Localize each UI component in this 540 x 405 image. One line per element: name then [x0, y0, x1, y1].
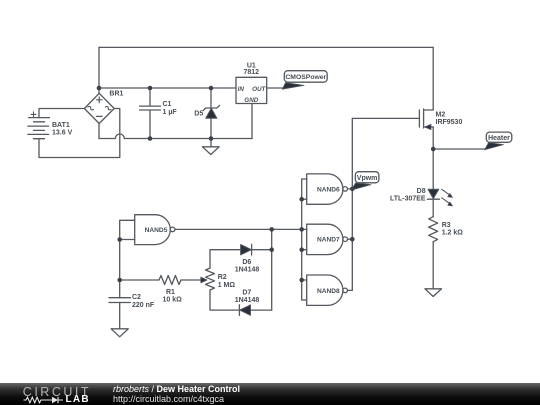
wire NAND5 output: [175, 228, 302, 230]
svg-text:Heater: Heater: [488, 135, 510, 142]
svg-text:1 MΩ: 1 MΩ: [218, 282, 236, 289]
logo CIRCUIT LAB: [23, 385, 91, 399]
wire heater branch: [433, 148, 485, 150]
svg-text:C1: C1: [163, 101, 172, 108]
footer title text: [113, 384, 240, 394]
flag Vpwm: [352, 172, 379, 190]
nand gate NAND8: [307, 275, 348, 305]
wire NAND8 input stubs: [302, 280, 307, 300]
wire NAND7 input stubs: [302, 229, 307, 249]
svg-text:BAT1: BAT1: [52, 122, 70, 129]
nand gate NAND6: [307, 174, 348, 204]
svg-text:1 µF: 1 µF: [163, 109, 178, 116]
svg-text:LTL-307EE: LTL-307EE: [390, 196, 426, 203]
svg-text:GND: GND: [244, 97, 258, 104]
svg-text:R2: R2: [218, 274, 227, 281]
wire U1 OUT to flag: [267, 87, 283, 89]
diode D6: [241, 244, 252, 255]
svg-text:1N4148: 1N4148: [235, 297, 260, 304]
led D8: [427, 189, 452, 206]
wire NAND8 output stub: [348, 289, 353, 291]
zener diode D5: [203, 105, 220, 118]
wire right drop to M2 source: [432, 47, 434, 110]
resistor R3: [429, 217, 438, 242]
svg-text:10 kΩ: 10 kΩ: [163, 297, 183, 304]
junction node dots: [97, 86, 102, 91]
wire M2 gate: [352, 117, 419, 119]
svg-text:Vpwm: Vpwm: [357, 175, 378, 182]
wire D8 to R3: [432, 199, 434, 217]
svg-text:IN: IN: [238, 86, 245, 93]
wire 12V rail y88: [99, 87, 236, 89]
svg-text:NAND5: NAND5: [145, 227, 168, 234]
wire battery minus loop: [39, 109, 120, 158]
wire top rail: [99, 46, 433, 48]
wire gates output line: [351, 118, 353, 290]
svg-text:D8: D8: [417, 188, 426, 195]
wire ground rail with hop: [99, 134, 252, 139]
wire C2 ground stem: [119, 303, 121, 329]
bridge rectifier BR1: [84, 93, 114, 123]
regulator U1 7812: [236, 77, 267, 103]
svg-text:D6: D6: [242, 259, 251, 266]
wire BR1 bottom to ground rail: [98, 123, 100, 138]
wire NAND6 output stub: [348, 188, 353, 190]
svg-text:D5: D5: [194, 110, 203, 117]
wire D5 stubs: [210, 88, 212, 139]
svg-text:C2: C2: [132, 294, 141, 301]
wire D6 row: [210, 250, 272, 268]
ground below D5: [202, 147, 219, 155]
label U1 pins IN OUT GND: [238, 86, 267, 104]
wire D7 row: [210, 290, 272, 310]
wire NAND6 input stubs: [302, 179, 307, 199]
capacitor C1: [140, 106, 161, 110]
wire osc branch vertical: [271, 229, 273, 310]
svg-text:IRF9530: IRF9530: [436, 119, 463, 126]
svg-text:1N4148: 1N4148: [235, 267, 260, 274]
wire U1 GND drop: [251, 104, 253, 139]
wire gates input line: [301, 179, 303, 300]
flag Heater: [485, 132, 512, 150]
svg-text:R3: R3: [442, 222, 451, 229]
svg-text:7812: 7812: [244, 69, 260, 76]
footer bar: [0, 383, 540, 405]
wire R3 to ground: [432, 242, 434, 289]
svg-text:CMOSPower: CMOSPower: [285, 74, 326, 81]
wire M2 drain drop: [432, 127, 434, 189]
svg-text:13.6 V: 13.6 V: [52, 130, 73, 137]
svg-text:OUT: OUT: [252, 86, 266, 93]
resistor R1: [159, 276, 181, 285]
wire NAND5 input tie: [120, 220, 135, 297]
wire R1 leads: [120, 279, 201, 281]
potentiometer R2: [201, 268, 215, 290]
wire left drop to node A: [98, 47, 100, 93]
wire battery plus to BR1 left: [39, 109, 85, 118]
svg-text:220 nF: 220 nF: [132, 302, 155, 309]
diode D7: [239, 305, 250, 316]
nand gate NAND5: [135, 215, 175, 245]
ground below C2: [111, 329, 128, 337]
svg-text:NAND6: NAND6: [317, 186, 340, 193]
wire C1 stubs: [149, 88, 151, 139]
nand gate NAND7: [307, 224, 348, 254]
svg-text:M2: M2: [436, 112, 446, 119]
svg-text:BR1: BR1: [109, 91, 123, 98]
wire NAND7 output stub: [348, 238, 353, 240]
wire D5 ground stem: [210, 139, 212, 147]
ground below R3: [425, 289, 442, 297]
footer url text: [113, 394, 224, 404]
flag CMOSPower: [282, 71, 327, 90]
mosfet M2: [419, 109, 433, 130]
battery BAT1: [28, 112, 50, 139]
logo waveform icon: [22, 396, 66, 404]
capacitor C2: [109, 298, 130, 303]
svg-text:NAND8: NAND8: [317, 288, 340, 295]
svg-text:NAND7: NAND7: [317, 237, 340, 244]
svg-text:D7: D7: [242, 290, 251, 297]
svg-text:1.2 kΩ: 1.2 kΩ: [442, 230, 464, 237]
svg-text:R1: R1: [166, 289, 175, 296]
